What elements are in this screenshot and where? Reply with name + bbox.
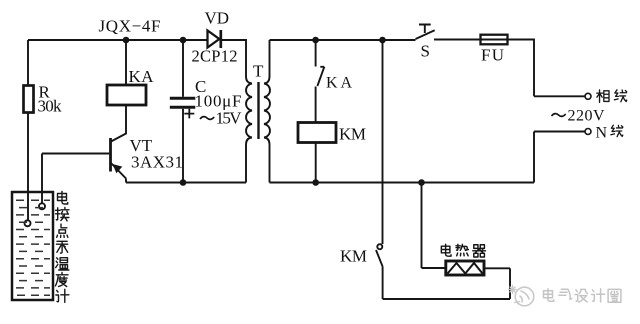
label thermometer vertical 度	[55, 273, 68, 287]
contact KM fixed terminal circle	[377, 244, 382, 249]
transformer T secondary bottom flare	[246, 138, 252, 145]
node junction dot KM contact branch top	[379, 37, 386, 44]
wire capacitor bottom lead	[182, 109, 184, 183]
contact KM blade	[376, 250, 383, 267]
svg-text:30k: 30k	[38, 97, 63, 116]
wire thermometer electrode 2 lead	[41, 154, 43, 204]
wire bottom bus right segment	[270, 182, 535, 184]
wire switch to fuse	[434, 39, 481, 41]
transformer T primary winding	[264, 84, 270, 138]
contactor coil KM box	[298, 123, 336, 143]
thermometer body box	[12, 192, 53, 300]
label 电热器 heater	[441, 244, 485, 257]
wire transformer primary top lead	[269, 40, 271, 77]
capacitor C1 plus sign	[184, 109, 194, 119]
label thermometer vertical 点	[57, 224, 68, 237]
svg-text:15V: 15V	[216, 109, 243, 128]
wire KA coil bottom to transistor collector	[111, 105, 126, 142]
node junction dot KM coil bottom	[312, 179, 319, 186]
wire KA contact upper lead	[315, 40, 317, 67]
svg-text:T: T	[253, 62, 264, 81]
thermometer contact electrode 1 circle	[25, 220, 31, 226]
label thermometer vertical 汞	[57, 241, 68, 253]
capacitor C1 top plate	[170, 97, 196, 100]
svg-text:N: N	[596, 125, 608, 142]
wire top bus left segment	[28, 39, 207, 41]
wire top bus right segment	[270, 39, 416, 41]
label 相线 phase line	[597, 90, 627, 137]
label thermometer vertical 接	[56, 208, 70, 221]
watermark sparkle	[509, 286, 517, 294]
label thermometer vertical 计	[56, 289, 69, 302]
wire transformer primary bottom lead	[269, 145, 271, 183]
wire bottom bus left segment	[126, 182, 246, 184]
svg-text:KM: KM	[340, 247, 367, 266]
label N线 neutral line 线	[611, 125, 623, 137]
switch S blade	[416, 30, 435, 39]
svg-text:3AX31: 3AX31	[131, 153, 183, 172]
wire KA contact lower lead to KM coil	[315, 87, 317, 123]
watermark logo circle	[509, 286, 534, 306]
wire heater left lead	[422, 267, 446, 269]
svg-text:KM: KM	[339, 125, 366, 144]
wire KM contact branch vertical (crosses bottom bus)	[382, 40, 384, 244]
svg-text:S: S	[421, 42, 430, 61]
label thermometer vertical 电	[55, 192, 69, 303]
svg-text:220V: 220V	[568, 108, 605, 125]
wire N horizontal	[534, 131, 585, 133]
heater EH box	[446, 261, 484, 275]
diode VD1 cathode bar	[219, 30, 222, 48]
wire capacitor top lead	[182, 40, 184, 97]
svg-text:JQX−4F: JQX−4F	[99, 17, 161, 36]
transformer T secondary winding	[246, 84, 252, 138]
relay coil KA box	[107, 85, 146, 105]
heater EH zigzag	[448, 263, 483, 274]
resistor R1 body	[24, 86, 34, 113]
transformer T secondary top flare	[246, 77, 252, 84]
node junction dot heater feed	[418, 179, 425, 186]
thermometer contact electrode 2 circle	[39, 203, 45, 209]
wire KM contact bottom lead	[382, 267, 384, 300]
fuse FU through wire	[481, 39, 508, 41]
wire left vertical from top bus to resistor	[27, 40, 29, 86]
node junction dot KA contact branch top	[312, 37, 319, 44]
transformer T primary top flare	[264, 77, 270, 84]
terminal phase circle	[585, 93, 591, 99]
wire phase horizontal	[534, 95, 585, 97]
fuse FU box	[481, 35, 508, 45]
transformer T primary bottom flare	[264, 138, 270, 145]
wire diode to transformer secondary top	[222, 40, 246, 77]
wire KM coil bottom lead	[315, 143, 317, 183]
wire heater right lead vertical	[509, 268, 511, 299]
label ~220V tilde	[552, 114, 566, 117]
thermometer mercury dashes	[16, 200, 50, 295]
node junction dot capacitor top	[180, 37, 187, 44]
node junction dot KA branch	[123, 37, 130, 44]
terminal N circle	[585, 129, 591, 135]
wire transformer secondary bottom lead	[245, 145, 247, 183]
diode VD1 triangle	[208, 31, 220, 48]
wire resistor bottom into thermometer	[27, 113, 29, 221]
wire base lead	[42, 153, 109, 155]
transistor Q1 emitter	[111, 163, 126, 179]
svg-text:VD: VD	[205, 9, 230, 28]
transistor Q1 base bar	[109, 138, 112, 172]
wire heater feed vertical	[421, 183, 423, 269]
transformer T core	[257, 82, 259, 139]
watermark text 电气设计圈	[544, 289, 621, 303]
label ~15V tilde	[200, 117, 214, 120]
svg-text:2CP12: 2CP12	[192, 47, 238, 66]
wire heater right lead horizontal	[484, 267, 510, 269]
contact KA blade	[317, 67, 324, 86]
node junction dot capacitor bottom	[180, 179, 187, 186]
wire N vertical down to bottom bus	[533, 132, 535, 183]
switch S tee bar	[419, 25, 431, 34]
svg-text:FU: FU	[481, 46, 504, 65]
wire emitter down to bottom bus	[125, 179, 127, 183]
wire fuse to phase corner	[508, 40, 535, 97]
wire KA coil top lead	[125, 40, 127, 85]
svg-text:KA: KA	[129, 67, 155, 86]
label thermometer vertical 温	[56, 258, 69, 270]
capacitor C1 bottom plate	[170, 106, 196, 109]
transistor Q1 emitter arrow	[113, 164, 123, 173]
wire heater bottom return bus	[383, 298, 510, 300]
